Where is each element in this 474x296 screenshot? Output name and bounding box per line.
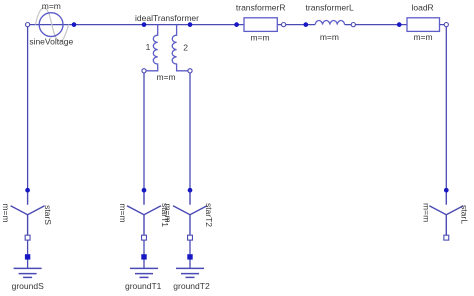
svg-text:sineVoltage: sineVoltage bbox=[29, 36, 73, 46]
svg-text:transformerR: transformerR bbox=[236, 3, 286, 13]
svg-text:transformerL: transformerL bbox=[306, 3, 354, 13]
svg-text:starL: starL bbox=[460, 205, 470, 224]
svg-text:groundT2: groundT2 bbox=[173, 281, 210, 291]
svg-text:m=m: m=m bbox=[42, 1, 61, 11]
svg-text:m=m: m=m bbox=[163, 203, 173, 222]
svg-text:m=m: m=m bbox=[250, 32, 269, 42]
svg-text:m=m: m=m bbox=[320, 32, 339, 42]
svg-text:m=m: m=m bbox=[1, 203, 11, 222]
svg-text:m=m: m=m bbox=[422, 203, 432, 222]
svg-text:idealTransformer: idealTransformer bbox=[135, 13, 199, 23]
svg-text:starT2: starT2 bbox=[204, 203, 214, 227]
svg-text:m=m: m=m bbox=[156, 72, 175, 82]
svg-text:groundS: groundS bbox=[12, 281, 44, 291]
svg-text:loadR: loadR bbox=[411, 2, 433, 12]
svg-text:m=m: m=m bbox=[413, 32, 432, 42]
svg-text:2: 2 bbox=[183, 42, 188, 52]
svg-text:m=m: m=m bbox=[118, 203, 128, 222]
svg-text:starS: starS bbox=[43, 205, 53, 225]
svg-text:1: 1 bbox=[146, 42, 151, 52]
svg-text:groundT1: groundT1 bbox=[125, 281, 162, 291]
